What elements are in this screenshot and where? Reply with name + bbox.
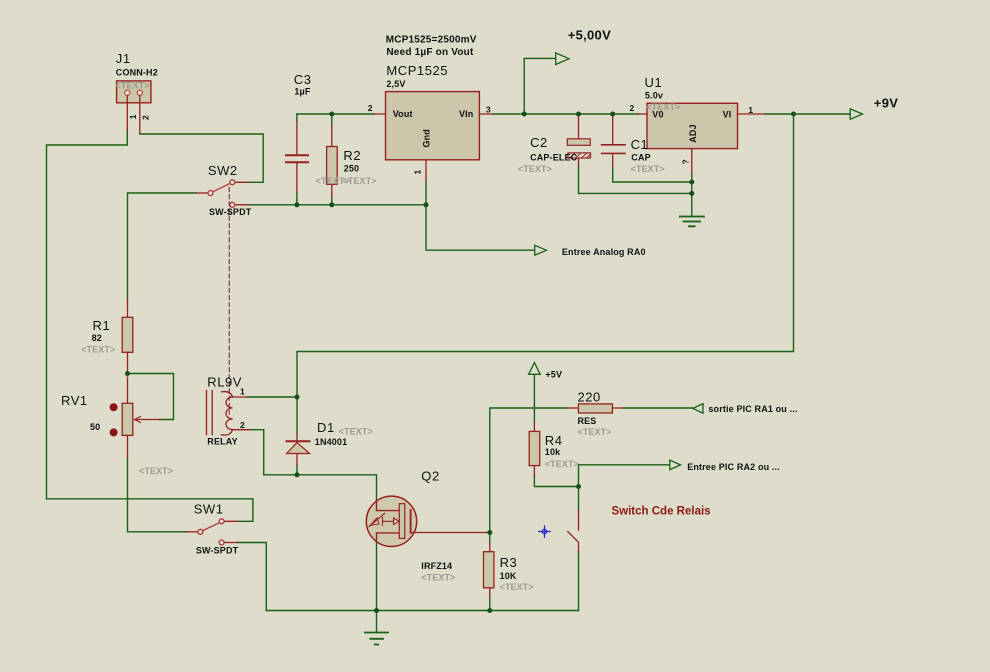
wire +5V power to R4 xyxy=(533,364,535,424)
junction +9V rail tap xyxy=(791,112,796,117)
WIRES_START xyxy=(47,58,851,632)
transistor Q2 MOSFET xyxy=(366,496,490,546)
wire gate node up to 220 xyxy=(490,408,567,533)
svg-text:250: 250 xyxy=(344,164,359,174)
svg-text:SW1: SW1 xyxy=(194,502,224,517)
svg-text:Switch Cde Relais: Switch Cde Relais xyxy=(612,506,711,518)
junction C3 bottom on gnd net xyxy=(294,202,299,207)
svg-text:5.0v: 5.0v xyxy=(645,90,663,100)
diode D1 xyxy=(287,433,310,465)
svg-text:<TEXT>: <TEXT> xyxy=(518,164,552,174)
svg-text:RELAY: RELAY xyxy=(207,437,237,447)
svg-text:sortie PIC RA1 ou ...: sortie PIC RA1 ou ... xyxy=(708,404,797,414)
svg-text:<TEXT>: <TEXT> xyxy=(578,427,612,437)
wire R2 top xyxy=(331,114,333,127)
svg-text:1: 1 xyxy=(240,387,245,397)
svg-text:10k: 10k xyxy=(545,447,561,457)
wire to Entree Analog RA0 xyxy=(426,205,535,250)
capacitor C1 xyxy=(602,116,625,167)
wire R3 bottom xyxy=(489,598,491,611)
svg-text:<TEXT>: <TEXT> xyxy=(116,81,150,91)
switch SPST relay contact xyxy=(568,510,579,552)
wire C3 top xyxy=(296,114,298,121)
terminal arrow Entree PIC RA2 xyxy=(670,460,681,470)
svg-text:<TEXT>: <TEXT> xyxy=(339,426,373,436)
junction MCP Gnd pin node xyxy=(424,202,429,207)
junction C1 bottom on ADJ net xyxy=(689,180,694,185)
wire switch node up to Entree RA2 arrow xyxy=(579,465,670,487)
svg-text:220: 220 xyxy=(578,390,601,405)
switch SW2 xyxy=(196,180,248,208)
svg-text:?: ? xyxy=(681,159,691,164)
origin marker blue xyxy=(539,526,551,538)
wire D1 bottom xyxy=(296,465,298,475)
svg-text:VI: VI xyxy=(723,109,732,119)
svg-text:Entree Analog RA0: Entree Analog RA0 xyxy=(562,247,646,257)
svg-text:Entree PIC RA2 ou ...: Entree PIC RA2 ou ... xyxy=(687,462,780,472)
junction R3 bottom on ground rail xyxy=(487,608,492,613)
svg-text:2: 2 xyxy=(240,420,245,430)
IC MCP1525 U? xyxy=(374,92,493,182)
wire Vout node horizontal xyxy=(297,113,374,115)
terminal arrow sortie PIC RA1 xyxy=(693,404,703,414)
wire C2 bottom to ADJ node xyxy=(579,167,692,194)
wire SW1 pole to pot chain xyxy=(128,458,187,532)
wire RV1 wiper loop xyxy=(128,374,174,420)
svg-text:SW-SPDT: SW-SPDT xyxy=(209,207,252,217)
wire J1 pin2 to SW2 top contact xyxy=(140,134,263,182)
svg-text:R1: R1 xyxy=(93,318,111,333)
wire D1 top xyxy=(296,397,298,433)
svg-text:+9V: +9V xyxy=(874,95,898,110)
junction R4 bottom / switch node xyxy=(576,484,581,489)
svg-text:CAP-ELEC: CAP-ELEC xyxy=(530,152,578,162)
svg-text:2,5V: 2,5V xyxy=(386,79,405,89)
svg-text:1: 1 xyxy=(748,105,753,115)
svg-text:<TEXT>: <TEXT> xyxy=(545,459,579,469)
svg-text:1N4001: 1N4001 xyxy=(315,437,347,447)
resistor R3 xyxy=(484,543,494,598)
resistor R2 xyxy=(327,127,338,198)
svg-text:1: 1 xyxy=(413,170,423,175)
junction R1-RV1 wiper node xyxy=(125,371,130,376)
svg-text:2: 2 xyxy=(630,103,635,113)
svg-text:Vout: Vout xyxy=(393,109,413,119)
svg-text:+5V: +5V xyxy=(545,369,562,379)
wire U1 ADJ to ground xyxy=(691,173,693,216)
capacitor C2 electrolytic xyxy=(567,116,590,167)
capacitor C3 xyxy=(286,155,308,162)
resistor 220 xyxy=(567,404,624,413)
junction +5V tap on Vin net xyxy=(522,112,527,117)
wire J1 pin1 to left rail xyxy=(47,130,128,499)
wire U1 output to +9V xyxy=(765,113,850,115)
wire R4 bottom to switch node xyxy=(534,476,578,487)
wire right rail +9V down to relay node xyxy=(297,114,794,397)
svg-text:1µF: 1µF xyxy=(294,87,310,97)
wire MCP Gnd down xyxy=(425,181,427,205)
wire Q2 source ground stub xyxy=(376,611,378,633)
svg-text:MCP1525=2500mV: MCP1525=2500mV xyxy=(386,34,477,45)
svg-text:C2: C2 xyxy=(530,135,548,150)
svg-text:Q2: Q2 xyxy=(421,469,439,484)
svg-text:U1: U1 xyxy=(645,75,663,90)
power arrow +5V xyxy=(529,363,541,375)
wire R3 top xyxy=(489,533,491,544)
wire SW2 bottom rail y=205 xyxy=(248,204,426,206)
wire MCP Vin to U1 xyxy=(493,113,638,115)
wire relay pin2 to D1 bottom node xyxy=(250,430,297,475)
svg-text:C1: C1 xyxy=(631,137,649,152)
TEXT_START xyxy=(61,27,898,592)
svg-text:R4: R4 xyxy=(545,433,563,448)
junction C1 top xyxy=(610,112,615,117)
ground under U1 xyxy=(680,217,704,227)
svg-text:<TEXT>: <TEXT> xyxy=(139,466,173,476)
wire SW2 pole to R1 chain xyxy=(128,193,197,298)
svg-text:VIn: VIn xyxy=(459,109,473,119)
relay coil RL9V xyxy=(207,391,251,436)
junction R2 bottom on gnd net xyxy=(329,202,334,207)
svg-text:J1: J1 xyxy=(116,51,131,66)
mechanical link dashed SW2-relay xyxy=(228,188,230,415)
svg-text:2: 2 xyxy=(368,103,373,113)
svg-text:<TEXT>: <TEXT> xyxy=(343,176,377,186)
svg-text:IRFZ14: IRFZ14 xyxy=(421,561,452,571)
svg-text:R3: R3 xyxy=(500,555,518,570)
power arrow +9V xyxy=(850,109,862,119)
svg-text:ADJ: ADJ xyxy=(688,124,698,142)
wire SW1 bottom contact to ground rail xyxy=(237,543,266,611)
svg-text:MCP1525: MCP1525 xyxy=(386,63,448,78)
svg-text:<TEXT>: <TEXT> xyxy=(81,344,115,354)
wire switch node down xyxy=(578,487,580,511)
junction Q2 gate node xyxy=(487,530,492,535)
svg-text:2: 2 xyxy=(140,115,150,120)
svg-text:Gnd: Gnd xyxy=(421,129,431,147)
wire 220 right to sortie arrow xyxy=(624,407,693,409)
junction C2 top xyxy=(576,112,581,117)
PARTS_START xyxy=(110,53,863,645)
junction C2 bottom on ADJ net xyxy=(689,191,694,196)
svg-text:<TEXT>: <TEXT> xyxy=(500,582,534,592)
svg-text:D1: D1 xyxy=(317,420,335,435)
wire C3 bottom xyxy=(296,193,298,205)
junction relay pin1 / D1 cathode node xyxy=(295,395,300,400)
resistor R1 xyxy=(122,298,133,374)
svg-text:V0: V0 xyxy=(652,109,663,119)
svg-text:<TEXT>: <TEXT> xyxy=(421,573,455,583)
wire D1 node to Q2 drain xyxy=(297,475,377,501)
wire R2 bottom xyxy=(331,197,333,205)
regulator U1 xyxy=(638,103,765,173)
junction relay pin2 / D1 anode node xyxy=(295,472,300,477)
wire +5.00V power tap xyxy=(524,58,556,114)
junction Q2 source on ground rail xyxy=(374,608,379,613)
svg-text:RV1: RV1 xyxy=(61,393,88,408)
potentiometer RV1 xyxy=(110,377,160,458)
svg-text:<TEXT>: <TEXT> xyxy=(631,164,665,174)
svg-text:+5,00V: +5,00V xyxy=(568,27,611,42)
svg-text:3: 3 xyxy=(486,105,491,115)
connector J1 xyxy=(117,81,151,134)
svg-text:50: 50 xyxy=(90,422,100,432)
svg-text:SW-SPDT: SW-SPDT xyxy=(196,546,239,556)
svg-text:RES: RES xyxy=(578,416,597,426)
wire switch bottom to rail xyxy=(578,552,580,611)
terminal arrow Entree Analog RA0 xyxy=(535,245,547,255)
svg-text:RL9V: RL9V xyxy=(207,374,242,389)
resistor R4 xyxy=(529,423,540,476)
wire relay pin1 to node xyxy=(247,396,297,398)
svg-text:1: 1 xyxy=(128,114,138,119)
wire SW1 top contact to left rail xyxy=(47,499,253,522)
ground under Q2 xyxy=(365,633,388,645)
switch SW1 xyxy=(186,519,237,545)
svg-text:C3: C3 xyxy=(294,72,312,87)
svg-text:82: 82 xyxy=(92,333,102,343)
svg-text:SW2: SW2 xyxy=(208,163,238,178)
svg-text:10K: 10K xyxy=(500,571,517,581)
wire Q2 source down xyxy=(376,542,378,611)
power arrow +5.00V xyxy=(556,53,569,65)
wire bottom ground rail xyxy=(266,610,578,612)
wire C1 bottom to ADJ node xyxy=(613,167,692,182)
svg-text:CONN-H2: CONN-H2 xyxy=(116,68,158,78)
svg-text:CAP: CAP xyxy=(631,152,650,162)
svg-text:R2: R2 xyxy=(343,148,361,163)
junction R2 top on Vout net xyxy=(329,112,334,117)
svg-text:Need 1µF on Vout: Need 1µF on Vout xyxy=(386,47,474,58)
